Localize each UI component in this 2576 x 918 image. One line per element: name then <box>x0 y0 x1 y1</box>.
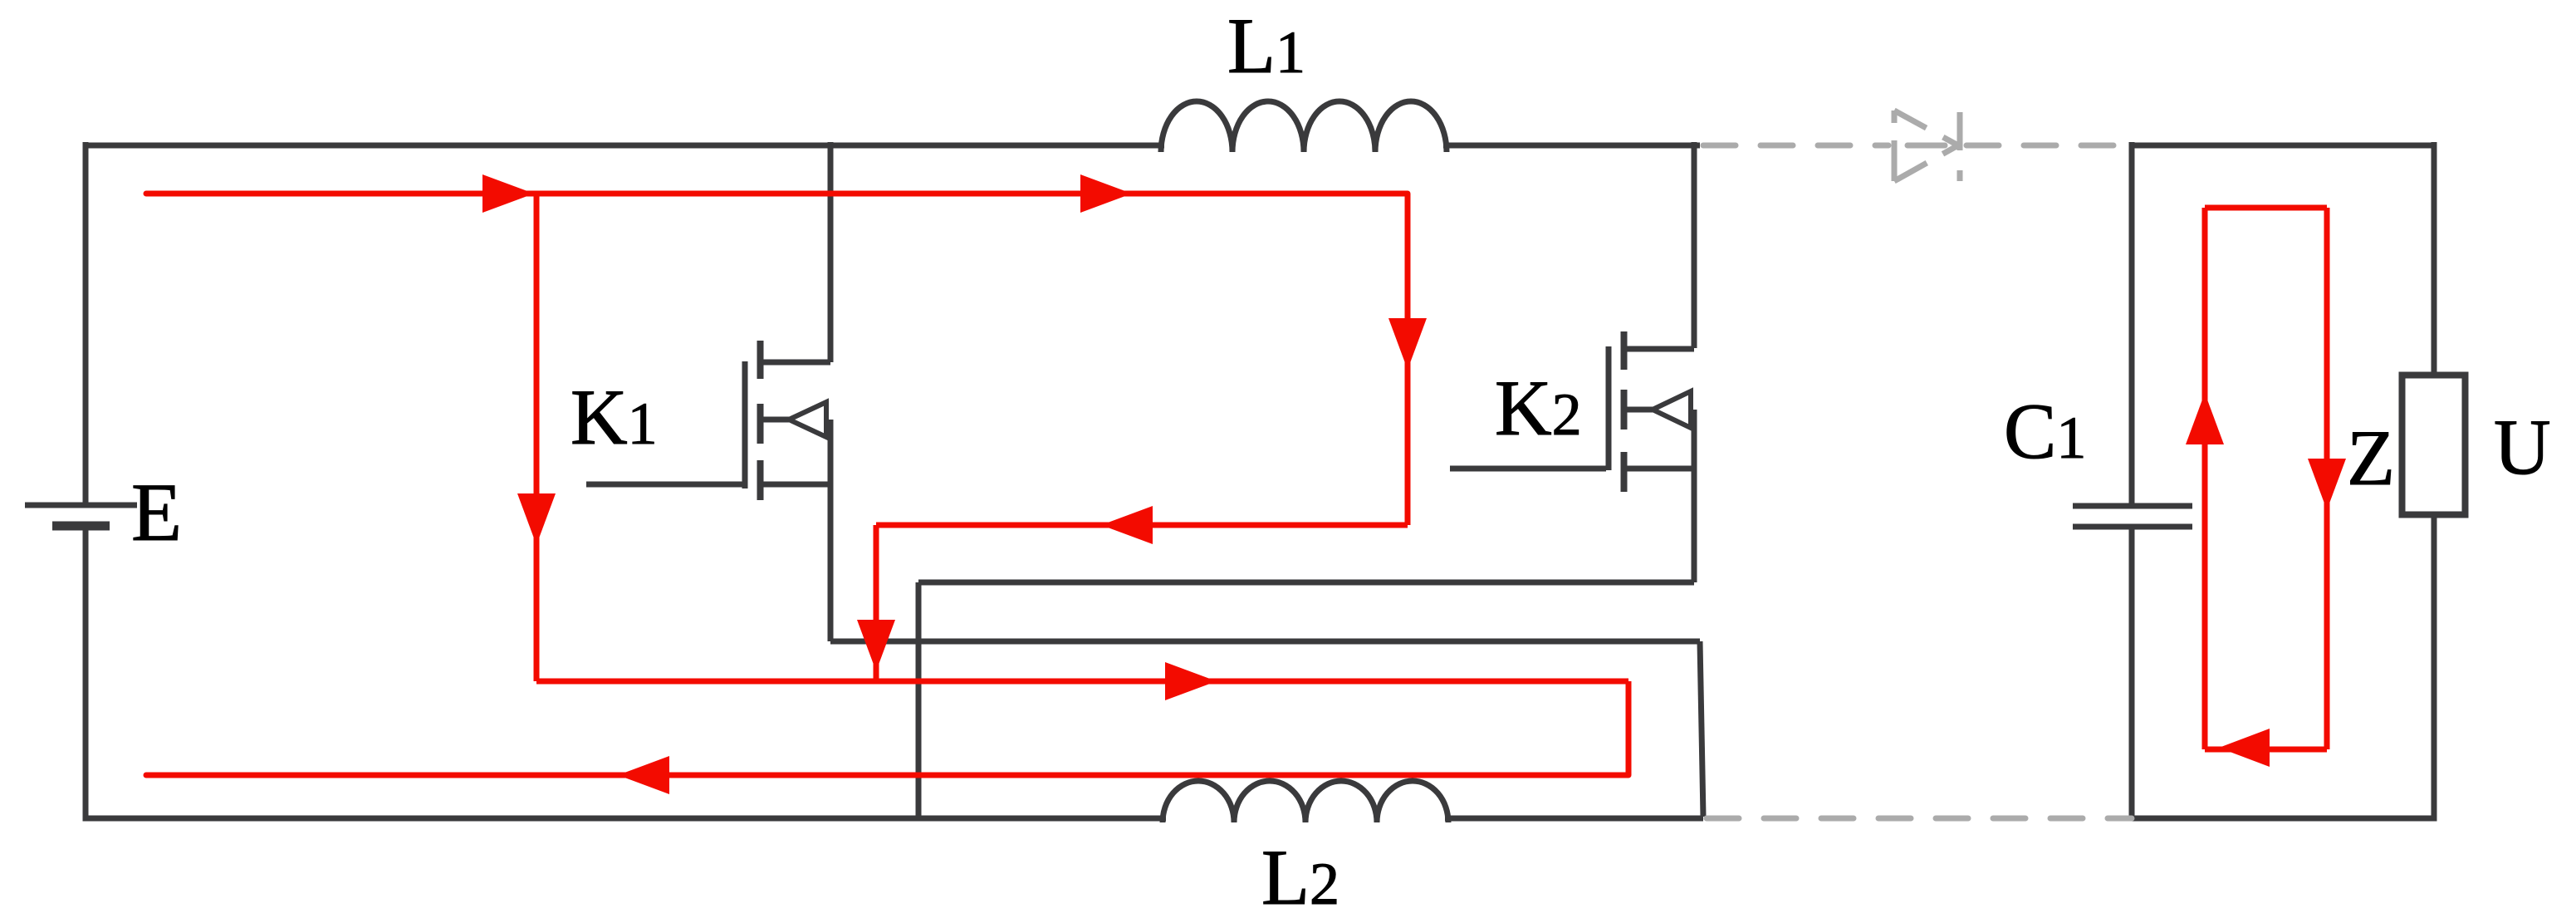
diode (inactive, dashed gray) <box>1894 110 1960 181</box>
arrow left on bottom return <box>618 756 669 794</box>
wire: top bus left of L1 <box>83 143 1165 149</box>
svg-text:Z: Z <box>2347 414 2395 502</box>
wire: load loop bottom <box>2129 816 2437 822</box>
wire: left vertical (battery branch) top <box>83 142 89 505</box>
current path: load loop right (down) <box>2324 208 2330 749</box>
current path: K1 branch vertical <box>534 194 540 681</box>
svg-text:L1: L1 <box>1227 2 1305 90</box>
wire: bottom bus left of L2 <box>83 816 1167 822</box>
transistor K1 <box>586 341 830 500</box>
wire: left vertical (battery branch) bottom <box>83 526 89 821</box>
wire: load loop right vertical above Z box <box>2432 142 2437 378</box>
svg-text:U: U <box>2494 403 2551 491</box>
wire: K2 source vertical <box>1692 410 1697 582</box>
current path: load loop bottom <box>2205 747 2327 753</box>
battery E long plate <box>25 503 137 508</box>
current path: lower L2 feed <box>536 679 1628 685</box>
arrow left on load loop bottom <box>2219 729 2270 767</box>
arrow down on load loop right <box>2308 459 2346 510</box>
capacitor C1 bottom plate <box>2073 524 2192 530</box>
current path: load loop top <box>2205 205 2327 211</box>
current path: load loop left (up) <box>2202 208 2208 749</box>
current path: drop to lower feed <box>874 525 879 680</box>
wire: K1 drain vertical <box>828 142 834 362</box>
wire: return vertical to bottom bus <box>916 582 922 818</box>
arrow down on K2 branch <box>1388 318 1427 370</box>
wire: bottom bus right of L2 <box>1445 816 1703 822</box>
arrow up on load loop left <box>2186 393 2224 444</box>
wire: K1 source horizontal run <box>830 639 1700 645</box>
current path: K2 loop horizontal <box>876 523 1408 528</box>
arrow right on lower L2 feed <box>1165 662 1217 700</box>
wire: slanted drop to bottom-right junction <box>1700 641 1703 817</box>
svg-text:C1: C1 <box>2004 387 2086 475</box>
inductor L1 <box>1161 101 1447 152</box>
wire: load loop left vertical above C1 <box>2129 142 2135 506</box>
capacitor C1 top plate <box>2073 503 2192 509</box>
wire: K1 source vertical <box>828 420 834 641</box>
wire: K2 drain vertical <box>1692 142 1697 348</box>
arrow down on K1 branch <box>517 493 556 545</box>
arrow right on top feed before L1 <box>1080 174 1132 213</box>
wire: K2 source return horizontal <box>918 580 1694 586</box>
inductor L2 <box>1163 781 1448 822</box>
battery E short plate <box>52 522 110 531</box>
arrow right on top feed at junction <box>482 174 534 213</box>
svg-text:K2: K2 <box>1495 364 1582 452</box>
current path: K2 branch vertical <box>1405 194 1411 525</box>
svg-text:K1: K1 <box>571 373 658 461</box>
svg-text:E: E <box>131 466 182 558</box>
wire: load loop left vertical below C1 <box>2129 527 2135 821</box>
wire: dashed top link, right of diode <box>1966 143 2132 149</box>
wire: load loop top <box>2129 143 2437 149</box>
arrow down on drop to lower feed <box>857 620 895 671</box>
transistor K2 <box>1450 331 1694 492</box>
resistor Z box <box>2402 376 2466 515</box>
wire: dashed top link, left of diode <box>1703 143 1888 149</box>
arrow left on K2 loop horizontal <box>1101 506 1153 544</box>
svg-text:L2: L2 <box>1261 833 1339 918</box>
current path: bottom return <box>146 773 1628 778</box>
wire: dash through diode <box>1908 143 1945 149</box>
wire: top bus right of L1 <box>1443 143 1700 149</box>
current path: right drop <box>1626 681 1632 775</box>
wire: load loop right vertical below Z box <box>2432 512 2437 821</box>
wire: dashed bottom link <box>1707 816 2132 822</box>
current path: top feed <box>146 191 1408 197</box>
